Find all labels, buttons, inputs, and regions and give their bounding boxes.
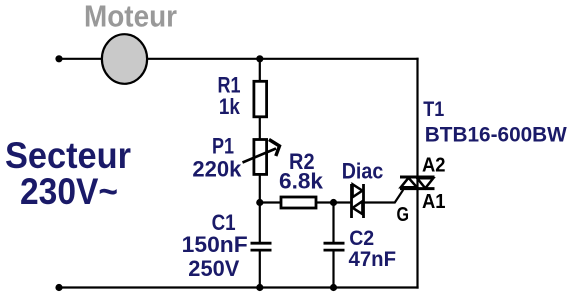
wire R2 branch horizontal <box>260 201 352 203</box>
svg-text:220k: 220k <box>192 157 242 182</box>
wire R1/P1/C1 branch vertical upper <box>259 59 261 243</box>
label P1 220k <box>192 134 242 182</box>
svg-text:BTB16-600BW: BTB16-600BW <box>425 123 568 147</box>
resistor R2 <box>281 197 316 208</box>
svg-text:6.8k: 6.8k <box>279 169 324 194</box>
potentiometer P1 arrow <box>243 140 280 163</box>
svg-text:Secteur: Secteur <box>5 135 131 176</box>
node junction C1/bottom wire <box>256 284 263 291</box>
wire C2 branch vertical upper <box>332 203 334 244</box>
label R1 1k <box>218 73 241 120</box>
label Secteur 230V~ <box>5 135 131 212</box>
node junction R2/C2 <box>330 199 337 206</box>
potentiometer P1 body <box>254 140 267 175</box>
wire C2 branch vertical lower <box>332 250 334 287</box>
svg-text:G: G <box>397 204 410 226</box>
svg-text:230V~: 230V~ <box>20 171 118 212</box>
svg-text:T1: T1 <box>423 98 444 121</box>
motor M <box>102 34 147 84</box>
triac T1 <box>400 177 435 189</box>
resistor R1 <box>254 81 267 117</box>
capacitor C1 <box>251 243 272 250</box>
diac D1 <box>352 184 364 218</box>
node junction P1/R2/C1 <box>256 199 263 206</box>
capacitor C2 <box>324 243 345 250</box>
label C1 150nF 250V <box>182 210 248 281</box>
svg-text:150nF: 150nF <box>182 232 248 257</box>
wire C1 branch vertical lower <box>259 250 261 287</box>
wire top (mains to motor to triac A2) <box>59 58 419 60</box>
svg-text:250V: 250V <box>188 256 239 281</box>
node top-left mains terminal <box>55 55 62 62</box>
svg-text:A2: A2 <box>422 155 446 177</box>
svg-text:Moteur: Moteur <box>84 0 177 34</box>
wire bottom (mains return) <box>59 286 419 288</box>
svg-text:P1: P1 <box>212 134 234 159</box>
label C2 47nF <box>349 226 397 271</box>
svg-text:47nF: 47nF <box>349 247 397 271</box>
node bottom-left mains terminal <box>55 284 62 291</box>
svg-text:Diac: Diac <box>342 158 384 183</box>
svg-text:1k: 1k <box>219 94 241 119</box>
label T1 BTB16-600BW <box>423 98 567 147</box>
node junction C2/bottom wire <box>330 284 337 291</box>
wire right vertical (triac branch) <box>416 58 418 289</box>
wire gate (diac to triac gate) <box>364 190 404 203</box>
svg-text:A1: A1 <box>422 191 446 213</box>
node junction top (R1 branch tap) <box>256 55 263 62</box>
label R2 6.8k <box>279 149 324 194</box>
